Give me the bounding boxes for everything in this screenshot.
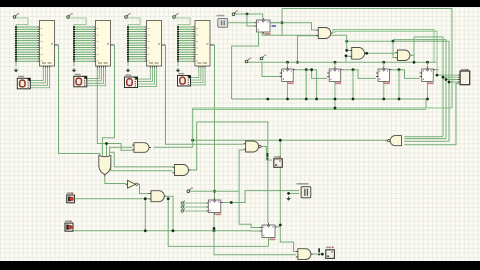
junction dots U4:A Q xyxy=(230,201,233,204)
wire branch to OR input3 xyxy=(106,144,108,157)
output chip U5 xyxy=(460,71,470,85)
wire U1:A bottom to counter rail xyxy=(232,32,259,99)
wire U6:A bottom pin xyxy=(268,238,270,247)
wire A2 output pair b xyxy=(335,31,437,75)
wire U5 bottom pin down xyxy=(404,84,460,145)
pin numbers inside U3 xyxy=(148,29,150,62)
decoder chip U4 xyxy=(195,21,210,67)
pin stub U2 bottom extra xyxy=(96,66,98,68)
wire B4 output xyxy=(313,253,324,255)
junction dots Q1 xyxy=(305,68,313,71)
flip-flop U1:A xyxy=(255,18,277,35)
label U5 xyxy=(461,69,469,71)
label2 inside U2 xyxy=(104,62,108,63)
feedback rail 2b xyxy=(193,109,426,111)
ground below input rail of U3 xyxy=(126,68,131,72)
NAND gate N2 xyxy=(244,141,264,152)
label X2 xyxy=(297,183,309,185)
wire U1:A Q to AND A2 input xyxy=(270,23,316,30)
wire bundle3 to NAND N1 in3 xyxy=(404,140,449,142)
pin stubs U5 xyxy=(458,75,460,82)
clock source X1 xyxy=(218,18,228,27)
junction branch OR3 xyxy=(105,142,108,145)
label LP3 xyxy=(326,247,334,249)
red tick U5 xyxy=(467,69,469,71)
ground below input rail of U4 xyxy=(176,68,181,72)
terminal circle U4:A J input xyxy=(181,201,185,205)
7-segment display DS3 xyxy=(125,74,138,87)
wire U3 output down to NAND xyxy=(166,45,244,144)
logic probe LP1 xyxy=(67,192,75,202)
power terminal top xyxy=(232,10,238,15)
bottom pins U1 xyxy=(43,66,49,68)
wire U4:A Q right xyxy=(223,191,299,203)
wire B3 out up and right xyxy=(191,122,268,223)
7-segment display DS2 xyxy=(74,74,87,87)
bottom pins U3 xyxy=(150,66,156,68)
ground below input rail of U2 xyxy=(72,68,77,72)
terminal circle U4:A S input xyxy=(181,209,185,213)
wires FF clock pins to rail xyxy=(288,62,428,67)
wire net down from N1 line to X2 xyxy=(280,140,296,251)
pin stub right U2 xyxy=(111,44,115,46)
wire X2 second input xyxy=(289,192,300,194)
power terminal P4 xyxy=(187,188,193,193)
wire O1 out to NOT xyxy=(105,177,126,184)
7-segment display DS1 xyxy=(17,76,30,89)
7-segment display DS4 xyxy=(178,73,191,86)
junction dots input rail U3 xyxy=(127,26,129,61)
wire N2 out down xyxy=(261,147,272,161)
wire branch down to U6:A bottom pin xyxy=(168,199,268,247)
exclamation marker N2 xyxy=(267,153,269,159)
input pull rail for U2 xyxy=(73,25,75,67)
wire top rail to U1:A input2 xyxy=(247,14,255,26)
wire P4 rail xyxy=(190,190,240,192)
power terminal P1 xyxy=(245,58,251,63)
wire feedback horizontal xyxy=(262,34,347,36)
wire net B1 input1 with OR input4 xyxy=(110,147,132,156)
wire N2 input2 net xyxy=(239,150,260,228)
logic probe LP4 xyxy=(274,156,283,167)
junction LP1 line branch xyxy=(144,197,147,200)
wire U6:A Q to down net xyxy=(277,226,280,228)
power terminal VCC1 xyxy=(13,13,19,18)
label inside U3 xyxy=(149,62,153,63)
wire v414 xyxy=(413,37,415,55)
wire U2 output down to OR gate xyxy=(102,45,114,156)
wire X1 to U1:A xyxy=(228,22,255,24)
clock rail top xyxy=(248,61,436,63)
junction dots LP2 line xyxy=(144,229,216,232)
wire A4 input2 xyxy=(393,41,396,57)
junction dots clock rail xyxy=(286,61,429,64)
junction N1-X2 net xyxy=(279,139,282,142)
AND gate B3 xyxy=(173,165,191,176)
AND gate B1 xyxy=(132,143,151,153)
wire feedback vertical xyxy=(281,9,283,36)
flip-flop U4:A xyxy=(206,198,223,215)
right pin number U3 xyxy=(158,43,160,44)
clock source X2 xyxy=(301,187,311,198)
pin numbers inside U4 xyxy=(196,29,198,62)
input wires bus U1 xyxy=(16,27,40,61)
junction feedback xyxy=(281,21,284,24)
junction A3 in2 xyxy=(345,54,348,57)
label2 inside U1 xyxy=(48,62,52,63)
junction dots input rail U1 xyxy=(15,26,17,61)
junction B3 net xyxy=(266,98,269,101)
pin numbers inside U1 xyxy=(41,29,43,62)
wire AND A2 lower input xyxy=(298,36,317,63)
AND gate B4 xyxy=(296,249,313,260)
decoder chip U1 xyxy=(40,21,55,67)
AND gate B2 xyxy=(149,191,166,202)
NAND gate N1 (left pointing) xyxy=(385,136,401,146)
AND gate A3 xyxy=(350,48,367,60)
junction dots input rail U2 xyxy=(73,26,75,61)
right pin number U2 xyxy=(107,43,109,44)
flip-flop U2:B xyxy=(327,67,343,84)
flip-flop U3:A xyxy=(376,67,392,84)
power terminal VCC3 xyxy=(125,13,131,18)
wires U3 outputs to display xyxy=(138,68,157,87)
wire A3 out to A4 xyxy=(367,52,396,54)
junction dots Q3 xyxy=(398,68,401,71)
wire NOT out to AND B2 xyxy=(137,184,149,193)
junction dots input rail U4 xyxy=(177,26,179,61)
junction dots bundle taps xyxy=(436,74,451,84)
wire U1 output down xyxy=(59,45,100,156)
wire LP1 to AND B2 input xyxy=(74,198,149,200)
label inside U1 xyxy=(42,62,46,63)
wire Q2 drop xyxy=(352,70,354,99)
wire U4 output down xyxy=(214,45,216,198)
wire Q3 drop xyxy=(398,70,400,99)
wire top long to right bundle xyxy=(282,9,452,109)
wire U4:A bottom pin down to AND B4 xyxy=(214,213,296,255)
wires bundle taps to U5 xyxy=(437,75,458,82)
wire power VCC1 to input rail xyxy=(16,18,28,25)
junction B4 out xyxy=(321,253,324,256)
junction A2 lower input tap xyxy=(296,61,299,64)
wire U2:B Q chain xyxy=(343,70,376,79)
NOT gate I1 xyxy=(126,180,140,188)
wire step to AND B3 input1 xyxy=(110,152,173,167)
input pull rail for U3 xyxy=(127,25,129,67)
input wires bus U2 xyxy=(74,27,96,61)
junction U4 net at clock rail xyxy=(213,190,216,193)
junction dots Q2 xyxy=(352,68,355,71)
wire A2 output pair a xyxy=(333,30,434,63)
junction crossbar mid xyxy=(392,40,395,43)
pin stubs U4 xyxy=(193,27,195,61)
OR gate O1 (down pointing) xyxy=(99,156,111,177)
wire OR side to AND B3 input2 xyxy=(111,159,173,171)
junction A3 in1 xyxy=(345,49,348,52)
wire power VCC2 to input rail xyxy=(70,18,87,25)
feedback rail 2 xyxy=(193,107,452,109)
wire AND A3 input2 xyxy=(346,56,350,62)
flip-flop U6:A xyxy=(260,223,277,240)
wire U2:A Q to U2:B clk xyxy=(312,70,328,79)
wire B2 out down to LP2 line xyxy=(166,196,173,231)
AND gate A2 xyxy=(316,28,333,39)
junction dots feedback rail 1 xyxy=(286,98,429,101)
input pull rail for U1 xyxy=(15,25,17,67)
wire N1 net vertical xyxy=(192,108,194,147)
input wires bus U3 xyxy=(128,27,147,61)
pin stubs U3 xyxy=(145,27,147,61)
wire U1:A Q feedback right xyxy=(270,22,282,24)
label inside U2 xyxy=(98,62,102,63)
wire crossbar upper2 to bundle xyxy=(414,37,443,137)
logic probe LP3 xyxy=(326,250,335,259)
logic probe LP2 xyxy=(65,221,73,232)
wire N1 output long left xyxy=(193,139,388,141)
wire Q1 drop xyxy=(305,70,307,99)
input wires bus U4 xyxy=(178,27,195,61)
pin stub right U1 xyxy=(55,44,59,46)
wire to AND A3 input1 xyxy=(347,35,350,50)
label inside U4 xyxy=(198,62,202,63)
wire crossbar upper xyxy=(347,41,449,141)
wire bundle2 to NAND N1 in2 xyxy=(404,138,446,140)
pin stubs U2 xyxy=(94,27,96,61)
flip-flop U2:A xyxy=(280,67,296,84)
wire power VCC4 to input rail xyxy=(176,18,191,25)
AND gate A4 xyxy=(396,50,413,61)
wire U3:B Q stub xyxy=(435,69,438,71)
ground X2 xyxy=(286,197,291,201)
wire A4 out to clock rail xyxy=(410,55,414,62)
junction dots feedback rail 2 xyxy=(334,107,337,110)
wire U1:A bottom pin2 xyxy=(261,32,263,35)
ground below input rail of U1 xyxy=(14,68,19,72)
feedback rail 1 xyxy=(232,98,426,100)
wire U2:A Q chain xyxy=(295,70,316,99)
wire crossbar mid to bundle xyxy=(393,40,446,139)
decoder chip U3 xyxy=(147,21,162,67)
input pull rail for U4 xyxy=(177,25,179,67)
wire U2 extra pin down xyxy=(97,68,132,150)
junction X2 net crossing xyxy=(279,224,282,227)
wire branch down from LP1 line xyxy=(144,199,146,231)
junction A3 out xyxy=(365,52,368,55)
junction N1 net xyxy=(191,139,194,142)
decoder chip U2 xyxy=(96,21,111,67)
power terminal VCC4 xyxy=(173,13,179,18)
wire LP2 long right xyxy=(73,230,260,232)
wires U2 outputs to display xyxy=(87,68,106,86)
terminal circle U4:A D input xyxy=(181,205,185,209)
wires U1 outputs to display xyxy=(30,68,49,88)
wire bundle1 to NAND N1 in1 xyxy=(404,136,443,138)
right pin number U1 xyxy=(51,43,53,44)
bottom letterbox bar xyxy=(0,261,480,270)
wire terminals to U4:A inputs xyxy=(184,203,207,211)
right pin number U4 xyxy=(207,43,209,44)
top letterbox bar xyxy=(0,0,480,7)
pin stubs U1 xyxy=(38,27,40,61)
bottom pins U2 xyxy=(99,66,105,68)
power terminal VCC2 xyxy=(67,13,73,18)
wire N1 net to AND B1 output xyxy=(154,146,193,148)
junction crossbar-A3 xyxy=(345,40,348,43)
bottom pins U4 xyxy=(199,66,205,68)
wires FF bottom pins to feedback rail xyxy=(288,81,428,108)
power terminal P2 xyxy=(260,55,266,60)
pin numbers inside U2 xyxy=(97,29,99,62)
wire rail link xyxy=(425,99,427,108)
pin stub right U3 xyxy=(162,44,166,46)
wire top rail xyxy=(235,14,263,18)
wire P2 to U2:A input xyxy=(262,62,280,77)
label2 inside U4 xyxy=(203,62,207,63)
junction X2 stub xyxy=(287,192,290,195)
pin stub right U4 xyxy=(210,44,215,46)
junction top rail xyxy=(246,13,249,16)
exclamation marker B4 xyxy=(318,248,320,255)
wire U3:A Q chain xyxy=(392,70,420,79)
junction U4:A bottom at LP2 line xyxy=(213,227,216,230)
flip-flop U3:B xyxy=(420,67,436,84)
label X1 xyxy=(217,15,225,16)
junction branch xyxy=(167,197,170,200)
wire power VCC3 to input rail xyxy=(128,18,141,25)
label2 inside U3 xyxy=(155,62,159,63)
wires U4 outputs to display xyxy=(191,68,206,85)
